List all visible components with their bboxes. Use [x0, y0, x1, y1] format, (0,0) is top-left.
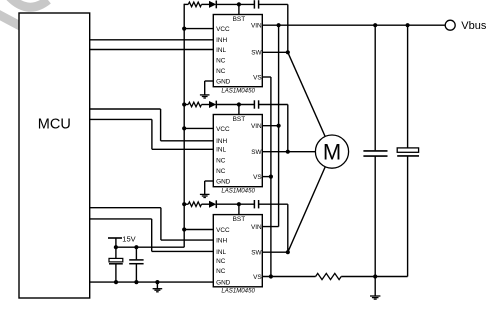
pin label NC U1 (1) — [216, 58, 226, 65]
junction VCC rail / VCC pin U3 — [182, 227, 186, 231]
wire MCU to U3 INH — [90, 208, 214, 240]
junction GND bus / cap C4 — [114, 280, 118, 284]
junction VCC rail / VCC pin U1 — [182, 27, 186, 31]
pin label VIN U3 — [251, 224, 262, 231]
capacitor C1 (bus) — [363, 25, 387, 276]
svg-text:GND: GND — [216, 78, 231, 85]
motor M1 — [315, 135, 348, 168]
bootstrap diode (U3) — [209, 200, 216, 208]
wire VS pin U1 — [262, 76, 271, 78]
shunt resistor — [316, 273, 342, 279]
watermark arc fragment — [7, 0, 48, 7]
pin label INH U1 — [216, 37, 227, 44]
junction BST node U1 — [237, 2, 241, 6]
wire VIN pin U3 — [262, 226, 278, 228]
watermark diagonal band — [0, 12, 24, 29]
pin label VS U1 — [253, 74, 262, 81]
pin label GND U3 — [216, 279, 231, 286]
svg-text:VCC: VCC — [216, 26, 230, 33]
bootstrap resistor (U3) — [188, 202, 201, 207]
wire VCC pin U1 — [184, 28, 213, 30]
pin label VIN U2 — [251, 123, 262, 130]
svg-text:GND: GND — [216, 178, 231, 185]
wire SW pin U1 — [262, 51, 288, 53]
junction GND bus / ground stub — [155, 280, 159, 284]
pin label NC U1 (2) — [216, 68, 226, 75]
svg-text:15V: 15V — [122, 234, 135, 243]
gate driver IC U2 LAS1M0450 — [213, 115, 262, 187]
wire MCU to U1 INH — [90, 39, 214, 41]
wire resistor to diode U2 — [202, 104, 210, 106]
pin label VIN U1 — [251, 23, 262, 30]
junction VCC rail / bootstrap chain U2 — [182, 102, 186, 106]
svg-text:LAS1M0450: LAS1M0450 — [221, 288, 255, 295]
svg-text:VIN: VIN — [251, 123, 262, 130]
wire MCU to U3 INL — [90, 219, 214, 252]
wire diode to BST node U2 — [216, 104, 254, 106]
svg-text:VCC: VCC — [216, 227, 230, 234]
pin label BST U3 — [233, 216, 246, 223]
wire capacitor to SW drop U2 — [259, 104, 288, 106]
svg-text:INH: INH — [216, 37, 227, 44]
junction BST cap / SW node U3 — [286, 250, 290, 254]
bootstrap resistor (U2) — [188, 102, 201, 107]
supply symbol 15V — [108, 238, 122, 247]
pin label VCC U3 — [216, 227, 230, 234]
wire Vbus line — [262, 24, 445, 26]
pin label GND U1 — [216, 78, 231, 85]
pin label INL U1 — [216, 47, 226, 54]
svg-text:INL: INL — [216, 147, 226, 154]
pin label VS U3 — [253, 274, 262, 281]
svg-text:INL: INL — [216, 249, 226, 256]
pin label BST U1 — [233, 16, 246, 23]
svg-text:NC: NC — [216, 268, 226, 275]
wire SW pin U2 to motor (phase B) — [262, 151, 315, 153]
BST pin wire U3 — [238, 204, 240, 214]
wire SW U1 to motor (phase A) — [288, 52, 325, 136]
svg-text:BST: BST — [233, 216, 246, 223]
junction ground node — [373, 274, 377, 278]
wire BST cap down to SW U3 — [287, 204, 289, 252]
junction VS rail / U3 VS — [269, 274, 273, 278]
wire VCC rail to bootstrap resistor U1 — [184, 3, 188, 5]
wire 15V rail — [116, 246, 184, 248]
svg-text:VS: VS — [253, 174, 262, 181]
BST pin wire U2 — [238, 105, 240, 115]
BST pin wire U1 — [238, 4, 240, 14]
svg-text:NC: NC — [216, 168, 226, 175]
junction VCC rail / bootstrap chain U3 — [182, 202, 186, 206]
svg-text:SW: SW — [251, 50, 262, 57]
pin label SW U3 — [251, 250, 262, 257]
capacitor C5 — [129, 247, 143, 282]
pin label NC U2 (2) — [216, 168, 226, 175]
ground symbol U2 — [200, 194, 210, 197]
wire MCU to U1 INL — [90, 49, 214, 51]
svg-text:INL: INL — [216, 47, 226, 54]
pin label VS U2 — [253, 174, 262, 181]
wire VCC rail to bootstrap resistor U2 — [184, 104, 188, 106]
junction Vbus / C2 — [406, 23, 410, 27]
wire resistor to diode U3 — [202, 203, 210, 205]
junction BST node U2 — [237, 102, 241, 106]
pin label VCC U1 — [216, 26, 230, 33]
wire diode to BST node U3 — [216, 203, 254, 205]
wire GND bus MCU to U3 — [90, 281, 214, 283]
svg-text:INH: INH — [216, 138, 227, 145]
bootstrap capacitor (U3) — [254, 200, 258, 208]
pin label VCC U2 — [216, 126, 230, 133]
wire GND pin U2 — [205, 181, 214, 194]
wire diode to BST node U1 — [216, 3, 254, 5]
junction BST cap / SW node U1 — [286, 50, 290, 54]
svg-text:VS: VS — [253, 274, 262, 281]
gate driver IC U1 LAS1M0450 — [213, 15, 262, 87]
junction Vbus / C1 — [373, 23, 377, 27]
pin label INL U2 — [216, 147, 226, 154]
MCU block U4 — [19, 13, 90, 298]
wire MCU to U2 INH — [90, 109, 214, 141]
net VIN rail vertical — [278, 25, 280, 226]
svg-text:MCU: MCU — [38, 117, 71, 133]
bootstrap diode (U1) — [209, 1, 216, 9]
capacitor C2 (bus electrolytic) — [375, 25, 419, 276]
svg-text:Vbus: Vbus — [461, 20, 487, 32]
wire BST cap down to SW U2 — [287, 105, 289, 152]
bootstrap resistor (U1) — [188, 2, 201, 7]
junction BST node U3 — [237, 202, 241, 206]
wire BST cap down to SW U1 — [287, 4, 289, 52]
svg-text:NC: NC — [216, 158, 226, 165]
svg-text:LAS1M0450: LAS1M0450 — [221, 188, 255, 195]
svg-text:VIN: VIN — [251, 23, 262, 30]
label Vbus — [461, 20, 487, 32]
wire capacitor to SW drop U3 — [259, 203, 288, 205]
junction VIN rail / U2 VIN — [277, 124, 281, 128]
wire shunt to ground node — [341, 276, 375, 278]
svg-text:LAS1M0450: LAS1M0450 — [221, 88, 255, 95]
wire GND pin U1 — [205, 81, 214, 95]
part label LAS1M0450 U3 — [221, 288, 255, 295]
bootstrap capacitor (U1) — [254, 0, 258, 8]
junction GND bus / cap C5 — [134, 280, 138, 284]
wire VCC pin U3 — [184, 229, 213, 231]
junction VS rail / U2 VS — [269, 175, 273, 179]
junction BST cap / SW node U2 — [286, 150, 290, 154]
wire capacitor to SW drop U1 — [259, 3, 288, 5]
gate driver IC U3 LAS1M0450 — [213, 215, 262, 287]
wire resistor to diode U1 — [202, 3, 210, 5]
ground symbol U1 — [200, 95, 210, 98]
net VCC rail (15V) vertical — [183, 4, 185, 248]
pin label INH U2 — [216, 138, 227, 145]
part label LAS1M0450 U2 — [221, 188, 255, 195]
ground symbol GND bus — [153, 282, 163, 292]
svg-text:NC: NC — [216, 68, 226, 75]
pin label NC U2 (1) — [216, 158, 226, 165]
wire SW U3 to motor (phase C) — [288, 167, 326, 253]
MCU label — [38, 117, 71, 133]
svg-text:GND: GND — [216, 279, 231, 286]
junction VCC rail / VCC pin U2 — [182, 126, 186, 130]
pin label BST U2 — [233, 116, 246, 123]
wire VS pin U2 — [262, 176, 271, 178]
svg-text:VIN: VIN — [251, 224, 262, 231]
net VS rail vertical — [270, 77, 272, 277]
svg-text:SW: SW — [251, 149, 262, 156]
ground symbol main — [370, 277, 380, 300]
pin label INL U3 — [216, 249, 226, 256]
pin label GND U2 — [216, 178, 231, 185]
pin label NC U3 (2) — [216, 268, 226, 275]
bootstrap diode (U2) — [209, 101, 216, 109]
pin label NC U3 (1) — [216, 258, 226, 265]
svg-text:NC: NC — [216, 58, 226, 65]
svg-text:VCC: VCC — [216, 126, 230, 133]
svg-text:BST: BST — [233, 116, 246, 123]
svg-text:BST: BST — [233, 16, 246, 23]
junction 15V / C5 — [134, 245, 138, 249]
svg-text:INH: INH — [216, 238, 227, 245]
junction 15V / C4 — [114, 245, 118, 249]
bootstrap capacitor (U2) — [254, 100, 258, 108]
svg-text:SW: SW — [251, 250, 262, 257]
wire VCC rail to bootstrap resistor U3 — [184, 203, 188, 205]
svg-text:M: M — [323, 140, 341, 165]
junction VIN rail / Vbus line — [277, 23, 281, 27]
wire VCC pin U2 — [184, 127, 213, 129]
part label LAS1M0450 U1 — [221, 88, 255, 95]
label 15V — [122, 234, 135, 243]
capacitor C4 (electrolytic) — [109, 247, 123, 282]
pin label SW U1 — [251, 50, 262, 57]
wire SW pin U3 — [262, 251, 288, 253]
svg-text:VS: VS — [253, 74, 262, 81]
pin label INH U3 — [216, 238, 227, 245]
terminal Vbus — [445, 20, 455, 30]
svg-text:NC: NC — [216, 258, 226, 265]
wire MCU to U2 INL — [90, 119, 214, 149]
wire VIN pin U2 — [262, 125, 278, 127]
wire VS pin U3 to shunt — [262, 276, 315, 278]
pin label SW U2 — [251, 149, 262, 156]
